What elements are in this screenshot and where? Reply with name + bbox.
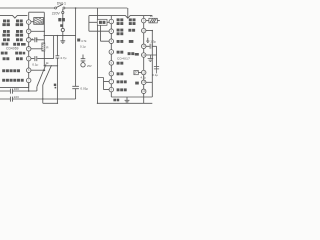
- wire bottom left: [43, 102, 58, 104]
- junction node pin7 row1: [28, 90, 30, 92]
- wire pin2 IC2 left: [89, 30, 109, 32]
- capacitor C7 and ground GND4 on pin12: [146, 55, 159, 73]
- wire rectifier feeds: [98, 8, 110, 103]
- IC2 pin 9: [141, 18, 146, 23]
- block2 top edge: [89, 16, 152, 19]
- IC2 right edge spine: [143, 16, 145, 94]
- IC1 pin 2: [26, 29, 31, 34]
- switch DW: [55, 4, 65, 9]
- wire pin6: [31, 69, 45, 71]
- label pin4 name lower: [1, 52, 4, 55]
- IC2 pin 7: [109, 79, 114, 84]
- IC2 pin 13: [141, 70, 146, 75]
- wire drop right x127: [127, 8, 129, 18]
- label IC2 pin4 name: [117, 51, 120, 54]
- label pin4 name: [2, 43, 5, 46]
- IC2 pin 14: [141, 80, 146, 85]
- resistor R1: [42, 43, 45, 51]
- capacitor C9: [72, 86, 79, 99]
- resistor R3: [134, 70, 142, 74]
- wire pin2: [31, 30, 45, 32]
- junction node bus h65: [44, 65, 45, 66]
- wire IC2 bottom rail: [111, 96, 152, 98]
- IC2 left edge spine: [110, 16, 112, 97]
- wire drop mid: [75, 8, 77, 86]
- piezo buzzer B1: [31, 18, 45, 25]
- IC2 pin 15: [141, 89, 146, 94]
- pin number digits: [28, 19, 146, 94]
- capacitor C3 mid: [56, 36, 60, 104]
- label IC2 pin1 name col2: [129, 18, 132, 21]
- svg-text:223: 223: [14, 95, 19, 99]
- IC1 pin 7: [26, 78, 31, 83]
- wire bottom right: [98, 102, 153, 104]
- label R3 designator: [135, 82, 139, 85]
- switch blade K1a: [37, 64, 46, 86]
- label IC2 pin2 name: [117, 29, 120, 32]
- neon lamp N1 lower: [61, 28, 64, 31]
- junction node c3 h35: [57, 35, 58, 36]
- label IC2 pin6 name: [117, 72, 120, 75]
- svg-text:1.3μ: 1.3μ: [150, 40, 156, 44]
- junction node neon h35: [62, 35, 63, 36]
- IC2 pin 6: [109, 71, 114, 76]
- IC2 pin 8: [109, 87, 114, 92]
- wire bus vertical x44: [43, 31, 45, 43]
- label IC2 pin1 name: [117, 18, 120, 21]
- wire pin9: [146, 20, 149, 22]
- annotation blob mid margin: [77, 39, 80, 42]
- wires IC2 pins 7-8 left: [98, 78, 110, 90]
- IC2 pin 4: [109, 50, 114, 55]
- junction node bottom right: [97, 103, 98, 104]
- IC2 pin 1: [109, 19, 114, 24]
- IC2 pin 11: [141, 44, 146, 49]
- label IC2 pin5 name: [117, 62, 120, 65]
- junction node pin10 rail: [152, 30, 153, 31]
- label rectifier D1: [99, 21, 102, 24]
- label pin2 name left col: [3, 30, 6, 33]
- neon lamp N1 upper: [62, 11, 64, 13]
- svg-text:CD4069: CD4069: [6, 46, 19, 50]
- svg-text:0.1μ: 0.1μ: [80, 45, 86, 49]
- label pin5 name: [3, 57, 6, 60]
- label IC2 pin12 name: [128, 52, 131, 55]
- IC2 pin 5: [109, 61, 114, 66]
- IC1 pin 1: [26, 20, 31, 25]
- junction node top rail: [75, 7, 77, 9]
- wire pin14 drop: [143, 94, 145, 104]
- IC2 pin 2: [109, 29, 114, 34]
- junction node c3 h65: [57, 65, 58, 66]
- svg-text:25V: 25V: [87, 64, 92, 68]
- junction node pin6 bus: [43, 69, 45, 71]
- IC1 pin 4: [26, 47, 31, 52]
- label pin3 name: [3, 38, 6, 41]
- junction node pin2 bus: [44, 31, 45, 32]
- wire mains top right: [65, 7, 127, 9]
- capacitor C6 on pin11: [146, 44, 157, 66]
- label pin6 phase line: [2, 69, 5, 72]
- wire mid vertical x53.6: [53, 36, 55, 59]
- junction node c3 bottom: [57, 103, 58, 104]
- label IC2 pin8 mains: [117, 88, 120, 91]
- svg-text:0.01μ: 0.01μ: [80, 86, 88, 90]
- svg-text:DW·1: DW·1: [57, 1, 66, 5]
- svg-text:4.7μ: 4.7μ: [60, 56, 66, 60]
- svg-text:103: 103: [14, 87, 19, 91]
- resistor R2: [149, 18, 157, 23]
- ground GND2: [125, 97, 130, 103]
- svg-text:4.7k: 4.7k: [81, 39, 87, 43]
- wire neon branch vertical: [62, 9, 64, 36]
- IC2 pin 10: [141, 28, 146, 32]
- capacitor C5 on gnd row2: [0, 97, 76, 102]
- IC1 pin 5: [26, 56, 31, 61]
- label neon lamp: [58, 18, 61, 21]
- ground GND3: [146, 38, 149, 43]
- wire pin7 drop: [28, 83, 30, 92]
- wire pin4: [31, 48, 42, 50]
- microphone MIC1: [81, 55, 86, 68]
- IC1 pin 6: [26, 68, 31, 73]
- IC1 top edge with notch: [0, 16, 27, 19]
- wire blade pivots down: [37, 85, 43, 103]
- wire R2 out: [157, 20, 160, 22]
- IC2 pin 3: [109, 39, 114, 44]
- block2 left edge: [88, 16, 90, 32]
- IC1 pin 3: [26, 38, 31, 43]
- IC2 pin 12: [141, 53, 146, 58]
- wire L1 mains top left: [0, 7, 55, 9]
- wire pin10 and right rail: [146, 31, 153, 97]
- svg-text:4.7μ: 4.7μ: [31, 37, 37, 41]
- svg-text:CD4017: CD4017: [117, 56, 130, 60]
- label value bottom rail: [113, 99, 116, 102]
- label pin1 name right col: [16, 20, 19, 23]
- label pin2 name right col: [16, 30, 19, 33]
- svg-text:220V: 220V: [52, 11, 61, 15]
- label pin1 name left col: [3, 20, 6, 23]
- junction node bus h35: [44, 35, 45, 36]
- svg-text:0.1μ: 0.1μ: [152, 73, 158, 77]
- capacitor C4 on gnd row1: [0, 89, 37, 94]
- IC1 right edge spine: [28, 16, 30, 88]
- junction node blade2 row2: [42, 98, 43, 99]
- capacitor C2 on pin5: [31, 56, 54, 61]
- svg-text:0.1μ: 0.1μ: [32, 63, 38, 67]
- label pin7 mains neutral: [2, 79, 5, 82]
- wire mid horizontal node B: [44, 35, 75, 37]
- ground GND1: [60, 36, 65, 44]
- capacitor C1 on pin3: [31, 37, 45, 42]
- label IC2 pin3 name: [117, 40, 120, 43]
- svg-text:4.7μ: 4.7μ: [141, 76, 147, 80]
- switch blade K1b: [43, 65, 52, 85]
- wire bus below R1: [44, 51, 57, 66]
- label C9 designator: [54, 84, 56, 86]
- wire pin1 loop to piezo: [29, 12, 45, 31]
- IC1 bottom edge: [0, 87, 29, 89]
- rectifier box D1: [89, 19, 109, 25]
- label IC2 pin7 load lamp: [117, 80, 120, 83]
- label IC2 pin10 name: [128, 29, 131, 32]
